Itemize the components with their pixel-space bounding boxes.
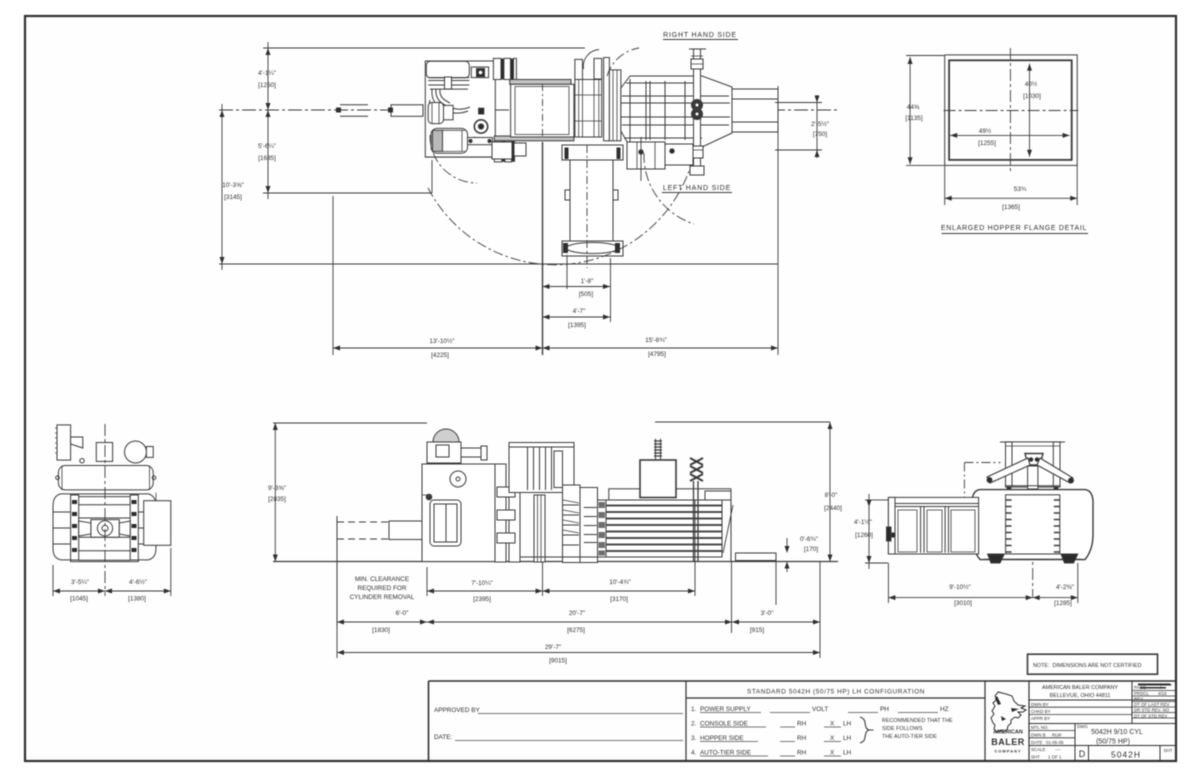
svg-text:D: D (1079, 749, 1086, 759)
svg-text:4'-1¼": 4'-1¼" (258, 70, 276, 77)
svg-text:RIGHT HAND SIDE: RIGHT HAND SIDE (663, 32, 737, 39)
svg-text:(50/75 HP): (50/75 HP) (1096, 739, 1130, 746)
svg-text:01-05-05: 01-05-05 (1046, 740, 1064, 745)
svg-text:29'-7": 29'-7" (545, 644, 561, 651)
svg-text:DATE: DATE (1031, 740, 1042, 745)
svg-text:20'-7": 20'-7" (569, 610, 585, 617)
svg-text:[1830]: [1830] (372, 627, 390, 634)
svg-text:CHKD BY: CHKD BY (1031, 709, 1051, 714)
svg-text:5'-6¼": 5'-6¼" (258, 143, 276, 150)
svg-text:MTL NO.: MTL NO. (1031, 725, 1049, 730)
svg-text:----: ---- (1055, 747, 1061, 752)
svg-text:RECOMMENDED THAT THE: RECOMMENDED THAT THE (882, 718, 953, 724)
svg-text:[4225]: [4225] (431, 352, 449, 359)
svg-text:X: X (830, 721, 835, 728)
svg-text:[170]: [170] (804, 546, 818, 553)
svg-text:SHT: SHT (1031, 755, 1040, 760)
svg-text:AUTO-TIER SIDE: AUTO-TIER SIDE (700, 750, 751, 757)
svg-text:[3145]: [3145] (224, 194, 242, 201)
svg-text:40½: 40½ (1025, 80, 1038, 88)
svg-text:[2835]: [2835] (268, 496, 286, 503)
svg-text:5042H: 5042H (1111, 750, 1141, 760)
svg-text:PH: PH (880, 706, 889, 713)
svg-text:X: X (830, 735, 835, 742)
svg-text:13'-10½": 13'-10½" (429, 337, 454, 345)
svg-text:6'-0": 6'-0" (396, 610, 409, 617)
svg-text:1'-8": 1'-8" (581, 278, 594, 285)
svg-text:0'-6¾": 0'-6¾" (800, 536, 818, 543)
svg-text:HZ: HZ (940, 706, 949, 713)
svg-text:[1380]: [1380] (128, 596, 146, 603)
svg-text:1 OF 1: 1 OF 1 (1048, 755, 1062, 760)
svg-text:RH: RH (797, 750, 807, 757)
svg-text:4/16: 4/16 (1158, 691, 1167, 696)
svg-text:DWN BY: DWN BY (1031, 702, 1049, 707)
svg-text:RH: RH (797, 735, 807, 742)
svg-text:SHT: SHT (1164, 748, 1173, 753)
svg-text:AMERICAN BALER COMPANY: AMERICAN BALER COMPANY (1042, 685, 1118, 691)
svg-text:49½: 49½ (979, 127, 992, 135)
svg-text:VOLT: VOLT (812, 706, 828, 713)
svg-text:[1255]: [1255] (978, 140, 996, 147)
svg-text:[750]: [750] (813, 131, 827, 138)
svg-text:REQUIRED FOR: REQUIRED FOR (358, 585, 407, 592)
svg-text:[2440]: [2440] (824, 505, 842, 512)
svg-text:3'-0": 3'-0" (761, 610, 774, 617)
svg-text:AMERICAN: AMERICAN (993, 730, 1023, 736)
svg-text:[1250]: [1250] (258, 82, 276, 89)
svg-text:CONSOLE SIDE: CONSOLE SIDE (700, 721, 748, 728)
svg-text:[9015]: [9015] (549, 658, 567, 665)
svg-text:4'-7": 4'-7" (573, 308, 586, 315)
svg-text:LH: LH (843, 750, 852, 757)
svg-text:[1045]: [1045] (70, 596, 88, 603)
svg-text:STANDARD 5042H (50/75 HP) LH C: STANDARD 5042H (50/75 HP) LH CONFIGURATI… (747, 689, 925, 696)
svg-text:APPROVED BY: APPROVED BY (434, 707, 481, 714)
svg-text:[1030]: [1030] (1023, 93, 1041, 100)
svg-text:[3010]: [3010] (954, 600, 972, 607)
svg-text:CYLINDER REMOVAL: CYLINDER REMOVAL (350, 594, 415, 601)
svg-text:[1365]: [1365] (1002, 204, 1020, 211)
svg-text:BELLEVUE, OHIO 44811: BELLEVUE, OHIO 44811 (1050, 693, 1111, 699)
svg-text:MIN. CLEARANCE: MIN. CLEARANCE (355, 576, 409, 583)
svg-text:[4795]: [4795] (648, 351, 666, 358)
svg-text:8'-0": 8'-0" (825, 492, 838, 499)
svg-text:[1285]: [1285] (1054, 600, 1072, 607)
svg-text:COMPANY: COMPANY (994, 749, 1021, 754)
svg-text:7'-10¼": 7'-10¼" (471, 580, 493, 587)
svg-text:9'-3⅝": 9'-3⅝" (268, 485, 286, 492)
svg-text:3.: 3. (691, 735, 697, 742)
svg-text:[2395]: [2395] (473, 596, 491, 603)
svg-text:X: X (830, 750, 835, 757)
svg-text:DR STD REV. NO: DR STD REV. NO (1134, 708, 1170, 713)
svg-text:10'-3⅝": 10'-3⅝" (222, 182, 244, 189)
svg-text:4'-6½": 4'-6½" (129, 578, 147, 586)
svg-text:LH: LH (843, 735, 852, 742)
svg-text:1.: 1. (691, 706, 697, 713)
svg-text:SCALE: SCALE (1031, 747, 1045, 752)
svg-text:15'-8¾": 15'-8¾" (645, 337, 667, 344)
svg-text:SIDE FOLLOWS: SIDE FOLLOWS (882, 726, 923, 732)
svg-text:DATE:: DATE: (434, 734, 453, 741)
svg-text:HOPPER SIDE: HOPPER SIDE (700, 735, 744, 742)
svg-text:RLW: RLW (1052, 733, 1062, 738)
svg-text:2.: 2. (691, 721, 697, 728)
svg-text:LEFT HAND SIDE: LEFT HAND SIDE (663, 185, 731, 192)
svg-text:10'-4¾": 10'-4¾" (609, 579, 631, 586)
svg-text:[1395]: [1395] (568, 322, 586, 329)
svg-text:DT OF STD REV: DT OF STD REV (1134, 714, 1167, 719)
svg-text:[1685]: [1685] (258, 155, 276, 162)
svg-text:REV.: REV. (1134, 697, 1144, 702)
svg-text:9'-10½": 9'-10½" (949, 583, 971, 591)
svg-text:DWG: DWG (1077, 724, 1088, 729)
svg-text:BALER: BALER (991, 737, 1025, 747)
svg-text:POWER SUPPLY: POWER SUPPLY (700, 706, 751, 713)
svg-text:[505]: [505] (579, 291, 593, 298)
svg-text:53¾: 53¾ (1014, 186, 1027, 193)
svg-text:2'-5½": 2'-5½" (811, 120, 829, 128)
svg-text:ENLARGED HOPPER FLANGE DETAIL: ENLARGED HOPPER FLANGE DETAIL (941, 225, 1087, 232)
svg-text:[1260]: [1260] (855, 532, 873, 539)
svg-text:[915]: [915] (750, 627, 764, 634)
svg-text:THE AUTO-TIER SIDE: THE AUTO-TIER SIDE (882, 734, 937, 740)
svg-text:NOTE: DIMENSIONS ARE NOT CERT: NOTE: DIMENSIONS ARE NOT CERTIFIED (1033, 663, 1142, 669)
svg-text:4.: 4. (691, 750, 697, 757)
svg-text:[3170]: [3170] (610, 596, 628, 603)
svg-text:4'-2⅜": 4'-2⅜" (1056, 584, 1074, 591)
svg-text:3'-5¼": 3'-5¼" (71, 579, 89, 586)
svg-text:4'-1½": 4'-1½" (854, 518, 872, 526)
svg-text:44⅝: 44⅝ (907, 104, 920, 111)
svg-text:DT OF LAST REV: DT OF LAST REV (1134, 702, 1170, 707)
svg-text:RH: RH (797, 721, 807, 728)
svg-text:PRDCL: PRDCL (1134, 691, 1149, 696)
svg-text:[6275]: [6275] (567, 627, 585, 634)
svg-text:[1135]: [1135] (905, 115, 923, 122)
svg-text:5042H 9/10 CYL: 5042H 9/10 CYL (1091, 729, 1143, 736)
svg-text:DWN B: DWN B (1031, 733, 1046, 738)
svg-text:LH: LH (843, 721, 852, 728)
svg-text:APPR BY: APPR BY (1031, 716, 1050, 721)
